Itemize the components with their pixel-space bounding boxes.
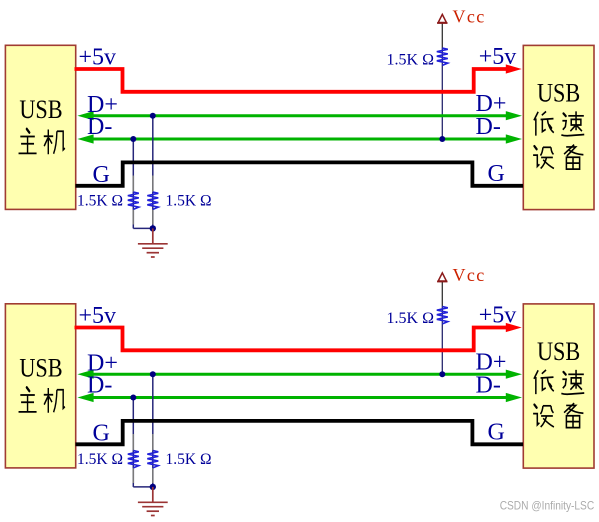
power Vcc symbol diagram 1 bbox=[437, 14, 447, 23]
wire Vcc stem diagram 1 bbox=[441, 23, 443, 48]
wire Vcc stem diagram 2 bbox=[441, 282, 443, 307]
diagram 2 (pull-up on D+) bbox=[5, 265, 594, 516]
resistor R6 pull-up 1.5K diagram 2 bbox=[437, 307, 448, 324]
resistor R3 pull-up 1.5K diagram 1 bbox=[437, 48, 448, 65]
svg-text:CSDN @Infinity-LSC: CSDN @Infinity-LSC bbox=[500, 498, 595, 512]
power Vcc symbol diagram 2 bbox=[437, 273, 447, 282]
node pull-up junction on D+ diagram 2 bbox=[439, 371, 445, 377]
diagram 1 (pull-up on D-) bbox=[5, 7, 594, 258]
node pull-up junction on D- diagram 1 bbox=[439, 136, 445, 142]
